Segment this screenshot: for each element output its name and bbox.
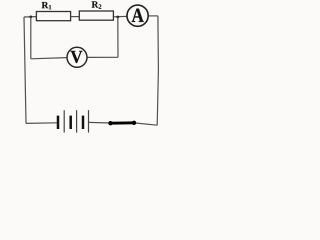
resistor R1 box	[36, 12, 70, 21]
wire voltmeter branch right vertical	[117, 17, 119, 57]
node junction dot right (voltmeter tap)	[116, 16, 119, 19]
wire bottom-left to battery	[26, 122, 57, 125]
label R1	[42, 2, 49, 8]
label R2	[92, 1, 99, 7]
switch left terminal dot	[108, 121, 112, 125]
wire left vertical	[24, 17, 26, 123]
resistor R2 box	[79, 11, 113, 20]
switch right terminal dot	[132, 121, 136, 125]
ammeter U-A circle	[127, 5, 148, 26]
wire battery to switch	[89, 121, 111, 124]
battery cell 2 negative plate (short thick)	[69, 116, 72, 129]
battery cell 1 negative plate (short thick)	[57, 116, 60, 129]
switch blade (closed)	[111, 121, 135, 124]
wire top-left segment	[24, 16, 36, 18]
wire right vertical	[157, 16, 158, 125]
node junction dot left (voltmeter tap)	[29, 16, 32, 19]
battery cell 1 positive plate (long thin)	[63, 110, 65, 132]
battery cell 2 positive plate (long thin)	[76, 110, 78, 132]
wire R2 to ammeter	[113, 15, 127, 17]
battery cell 3 positive plate (long thin)	[88, 110, 90, 132]
battery cell 3 negative plate (short thick)	[82, 116, 85, 129]
wire bottom-right corner to switch	[134, 123, 157, 125]
wire ammeter to top-right corner	[149, 15, 158, 17]
wire voltmeter branch left vertical	[30, 17, 32, 59]
ammeter A letter	[132, 9, 144, 22]
voltmeter U-V circle	[67, 47, 87, 67]
voltmeter V letter	[70, 51, 82, 63]
wire voltmeter branch left horizontal	[31, 58, 67, 59]
wire between R1 and R2	[71, 16, 80, 18]
wire voltmeter branch right horizontal	[87, 56, 118, 58]
